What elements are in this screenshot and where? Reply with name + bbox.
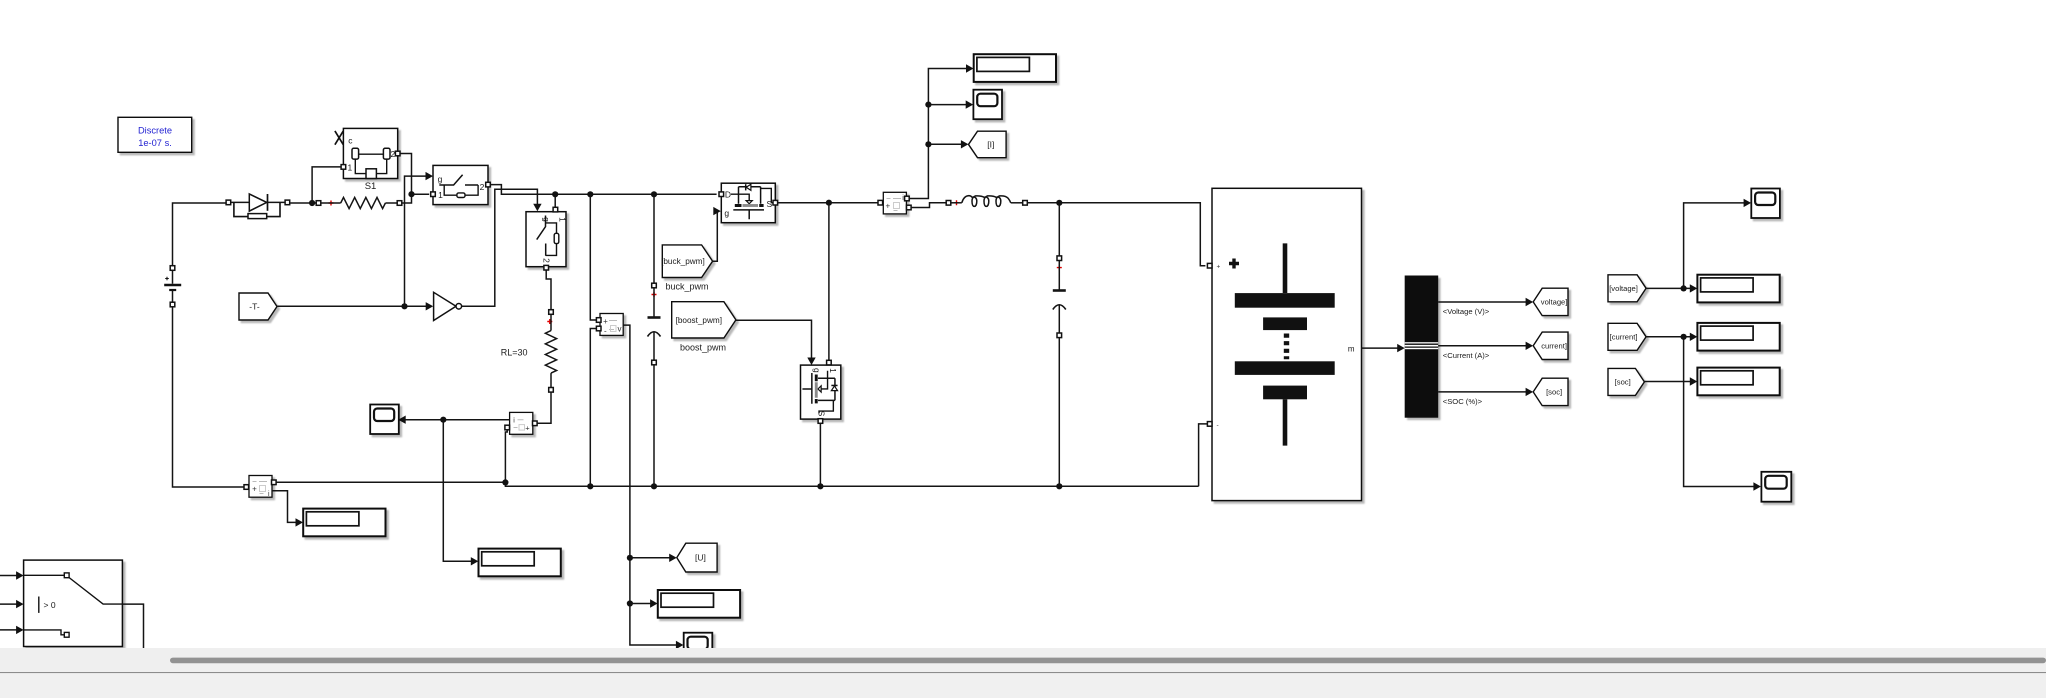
wire current tag to display xyxy=(1646,336,1692,338)
from tag [soc] right xyxy=(1608,368,1644,395)
node B xyxy=(408,191,414,197)
svg-text:S1: S1 xyxy=(365,181,377,192)
wire node D to switch2 port1 xyxy=(554,194,556,207)
svg-text:current]: current] xyxy=(1541,342,1567,351)
breaker S1 xyxy=(343,128,397,178)
node G (scope3 branch) xyxy=(440,417,446,423)
svg-text:2: 2 xyxy=(480,182,485,192)
junction boost source xyxy=(817,483,823,489)
svg-text:S: S xyxy=(766,199,772,209)
svg-text:[current]: [current] xyxy=(1610,333,1638,342)
wire SW3 output down xyxy=(122,604,143,648)
svg-text:boost_pwm: boost_pwm xyxy=(680,343,726,353)
wire node L to goto I xyxy=(928,143,963,145)
from tag -T- xyxy=(239,293,277,320)
goto tag [voltage] xyxy=(1533,288,1568,315)
svg-text:+: + xyxy=(525,424,530,433)
ideal switch SW1 xyxy=(433,165,488,204)
wire node I to display3 xyxy=(630,603,652,605)
wire node E to voltage measurement + xyxy=(590,194,596,320)
statusbar divider xyxy=(0,672,2046,674)
svg-text:m: m xyxy=(1348,344,1355,353)
bottom rail wire xyxy=(276,482,1199,486)
capacitor C1 xyxy=(653,194,655,283)
wire CM3 to inductor xyxy=(911,203,946,208)
from tag [voltage] right xyxy=(1608,275,1646,302)
svg-text:S: S xyxy=(817,411,827,417)
resistor RL=30 xyxy=(549,310,554,315)
node K (scope1 branch) xyxy=(925,102,931,108)
wire bus out soc xyxy=(1438,391,1528,393)
wire node H to goto U xyxy=(630,557,671,559)
display DisplayC xyxy=(1697,323,1779,351)
battery block xyxy=(1212,188,1362,500)
wire battery - to rail xyxy=(1199,424,1208,486)
svg-text:1: 1 xyxy=(558,217,568,222)
svg-text:RL=30: RL=30 xyxy=(501,348,528,358)
svg-text:g: g xyxy=(438,174,443,184)
svg-text:v: v xyxy=(618,325,622,334)
svg-text:voltage]: voltage] xyxy=(1541,298,1568,307)
svg-text:[boost_pwm]: [boost_pwm] xyxy=(676,316,722,325)
powergui block xyxy=(118,117,192,152)
wire gate branch up to switch g xyxy=(405,176,426,306)
scrollbar strip xyxy=(0,648,2046,672)
node A (diode-resistor junction) xyxy=(290,202,318,204)
wire DC source to bottom rail xyxy=(173,307,247,487)
wire NOT output to switch2 g xyxy=(462,189,538,306)
goto tag [soc] xyxy=(1533,378,1568,405)
svg-text:Discrete: Discrete xyxy=(138,126,172,136)
scope ScopeS2 xyxy=(1761,472,1791,502)
node M (capacitor C2 tap) xyxy=(1056,200,1062,206)
wire diode to DC source xyxy=(173,203,229,266)
goto tag [U] xyxy=(677,543,717,572)
current measurement CM3 xyxy=(883,192,906,214)
svg-text:+: + xyxy=(885,201,890,210)
svg-text:g: g xyxy=(724,208,729,218)
node E (voltage measure tap) xyxy=(587,191,593,197)
svg-text:1: 1 xyxy=(348,163,353,173)
voltage measurement VM xyxy=(600,314,623,336)
wire boost_pwm to Q2 gate xyxy=(736,320,812,358)
scope Scope1 xyxy=(973,90,1002,120)
wire SW2 port2 to RL xyxy=(546,270,551,310)
svg-text:-: - xyxy=(1217,422,1219,429)
svg-text:-T-: -T- xyxy=(249,302,260,312)
svg-text:[soc]: [soc] xyxy=(1615,378,1631,387)
ideal switch SW2 xyxy=(526,212,566,267)
wire node N to scope up xyxy=(1684,203,1746,289)
capacitor C2 xyxy=(1058,203,1060,256)
svg-text:[buck_pwm]: [buck_pwm] xyxy=(661,257,705,266)
svg-text:2: 2 xyxy=(542,258,552,263)
junction voltage measure minus xyxy=(587,483,593,489)
svg-text:c: c xyxy=(348,135,353,145)
svg-text:2: 2 xyxy=(390,149,395,159)
display Display3 xyxy=(658,590,740,618)
svg-text:<Current (A)>: <Current (A)> xyxy=(1443,351,1490,360)
wire voltage tag to display xyxy=(1646,287,1692,289)
node L (goto I branch) xyxy=(925,141,931,147)
svg-text:buck_pwm: buck_pwm xyxy=(665,282,708,292)
goto tag [I] xyxy=(969,131,1007,158)
junction capacitor C1 bottom xyxy=(651,483,657,489)
svg-text:[soc]: [soc] xyxy=(1546,388,1562,397)
wire Q2 source to rail xyxy=(819,423,821,486)
wire buck_pwm to Q1 gate xyxy=(713,211,718,261)
scrollbar thumb xyxy=(170,658,2046,664)
mosfet Q1 (buck) xyxy=(721,183,775,223)
svg-text:> 0: > 0 xyxy=(44,600,56,610)
node I (display3 branch) xyxy=(627,600,633,606)
node O (scope2r branch) xyxy=(1681,334,1687,340)
wire soc tag to display xyxy=(1644,381,1692,383)
switch block SW3 xyxy=(24,560,123,646)
node J (boost drain tap) xyxy=(826,200,832,206)
junction capacitor C2 bottom xyxy=(1056,483,1062,489)
svg-text:+: + xyxy=(252,485,257,494)
inductor L1 xyxy=(946,201,951,206)
wire CM2 i output to scope xyxy=(404,419,510,421)
junction CM2-rail xyxy=(502,479,508,485)
svg-text:D: D xyxy=(725,189,731,199)
svg-text:-: - xyxy=(604,326,607,335)
diode D1 xyxy=(226,200,231,205)
scope ScopeV xyxy=(1751,189,1780,219)
wire bus out current xyxy=(1438,345,1528,347)
bus selector xyxy=(1405,276,1439,418)
display Display1 xyxy=(303,509,385,537)
node D (switch2 port1 tap) xyxy=(552,191,558,197)
wire node O to scope2 down xyxy=(1684,337,1756,487)
svg-text:[voltage]: [voltage] xyxy=(1609,284,1638,293)
svg-text:1: 1 xyxy=(438,190,443,200)
wire node G to display2 xyxy=(443,420,473,562)
wire node K to scope xyxy=(928,104,967,106)
DC source V1 xyxy=(170,266,175,271)
wire CM3 i up to measurement column xyxy=(909,69,968,199)
wire inductor to battery + xyxy=(1027,203,1205,266)
from tag [boost_pwm] xyxy=(672,302,736,338)
svg-text:[U]: [U] xyxy=(695,553,706,563)
svg-text:g: g xyxy=(542,217,552,222)
wire S1 port2 to node B xyxy=(400,154,412,195)
resistor R1 xyxy=(316,201,321,206)
display DisplayV xyxy=(1697,275,1779,303)
svg-text:1e-07 s.: 1e-07 s. xyxy=(138,138,172,148)
scope Scope3 xyxy=(370,405,399,435)
current measurement CM1 xyxy=(249,476,272,498)
wire bus out voltage xyxy=(1438,301,1528,303)
wire RL to current measurement CM2 xyxy=(537,392,551,423)
wire CM2 minus to bottom rail xyxy=(505,430,507,484)
svg-text:g: g xyxy=(812,368,822,373)
wire -T- to NOT gate xyxy=(277,305,427,307)
node H (goto U branch) xyxy=(627,555,633,561)
from tag [buck_pwm] xyxy=(662,245,712,278)
svg-text:+: + xyxy=(1217,264,1221,271)
current measurement CM2 xyxy=(510,412,533,434)
statusbar xyxy=(0,673,2046,698)
svg-text:[I]: [I] xyxy=(987,140,994,150)
svg-text:<Voltage (V)>: <Voltage (V)> xyxy=(1443,307,1490,316)
from tag [current] right xyxy=(1608,323,1646,350)
mosfet Q2 (boost) xyxy=(801,365,841,419)
wire Q1 source to CM3 xyxy=(778,202,878,204)
node F (capacitor C1 tap) xyxy=(651,191,657,197)
svg-text:<SOC (%)>: <SOC (%)> xyxy=(1443,397,1483,406)
scope Scope4 xyxy=(684,633,713,663)
wire voltage measurement - to rail xyxy=(590,329,596,487)
goto tag [current] xyxy=(1533,332,1568,359)
wire battery m to bus selector xyxy=(1362,347,1400,349)
wire VM output down xyxy=(623,325,678,645)
wire CM1 out to display1 xyxy=(272,491,298,523)
node C (gate branch) xyxy=(401,303,407,309)
svg-text:1: 1 xyxy=(828,368,838,373)
display DisplayS xyxy=(1697,368,1779,396)
node N (scope1r branch) xyxy=(1681,285,1687,291)
display Display2 xyxy=(479,549,561,577)
wire SW1 port2 to top rail xyxy=(490,185,716,195)
display Display4 (current) xyxy=(974,54,1056,82)
wire resistor to switch node xyxy=(402,196,412,203)
NOT gate U2 xyxy=(426,302,434,310)
wire junction to S1 port 1 xyxy=(312,167,341,203)
svg-text:+: + xyxy=(603,317,608,326)
wire node J to Q2 drain xyxy=(828,203,830,361)
